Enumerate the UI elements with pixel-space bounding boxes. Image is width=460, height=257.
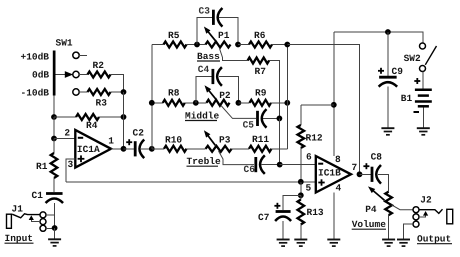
wire C5 to pin6 bus [263, 117, 279, 119]
P3 wiper arrow [207, 135, 215, 146]
polarity + C7 [274, 205, 280, 207]
wire C7 to ground [282, 221, 284, 239]
ground output [397, 239, 410, 241]
wire pin 8 to V+ [333, 32, 335, 156]
svg-text:-10dB: -10dB [21, 88, 50, 99]
resistor R12 [298, 125, 305, 148]
wire IC1A output [111, 148, 124, 150]
svg-text:C3: C3 [199, 6, 211, 17]
wire R12 top lead [300, 105, 302, 125]
wire C8 to P4 [378, 174, 389, 191]
wire R8 to P2 [185, 102, 207, 104]
wire stub +10dB contact [79, 54, 87, 56]
battery B1 [415, 89, 432, 92]
wire SW2 to battery [422, 72, 424, 89]
wire C6 to pin 6 node [262, 164, 280, 166]
svg-text:Treble: Treble [187, 156, 222, 167]
node IC1B output junction [357, 171, 363, 177]
resistor R10 [164, 146, 187, 152]
svg-text:C9: C9 [392, 66, 404, 77]
node R4-feedback junction [121, 114, 127, 120]
svg-text:P4: P4 [365, 204, 377, 215]
op-amp IC1A [75, 130, 111, 168]
node C7 branch junction [298, 192, 304, 198]
wire R5 to P1 [187, 44, 206, 46]
resistor R1 [51, 153, 58, 178]
wire R7 to pin6 bus [269, 61, 279, 119]
potentiometer P3 [206, 146, 232, 152]
svg-text:IC1B: IC1B [318, 167, 341, 178]
node pin2 junction [51, 136, 57, 142]
node C9 junction [385, 29, 391, 35]
P2 wiper arrow [208, 90, 216, 100]
svg-text:8: 8 [335, 154, 341, 165]
wire J1 ring stub [31, 220, 40, 222]
wire R4 left [54, 116, 76, 118]
SW1 contact +10dB [73, 52, 79, 58]
wire treble row left [152, 148, 164, 150]
node R9 feedback junction [284, 100, 290, 106]
potentiometer P1 [206, 42, 231, 48]
wire P3 to R11 [232, 148, 249, 150]
jack J2 tip terminal [413, 207, 419, 213]
wire bass row left [152, 44, 164, 46]
wire C3 left leg [197, 17, 212, 44]
capacitor C4 [211, 69, 214, 84]
svg-text:Middle: Middle [185, 111, 220, 122]
wire R12 to pin5 node [300, 148, 302, 182]
capacitor C9 [379, 76, 397, 79]
ground pin4 [327, 239, 340, 241]
resistor R6 [249, 42, 272, 48]
node R12 V+ junction [331, 102, 337, 108]
node bass feedback junction [284, 42, 290, 48]
wire P4 wiper to J2 [392, 205, 414, 210]
svg-text:R10: R10 [165, 135, 182, 146]
svg-text:R2: R2 [93, 60, 105, 71]
wire SW1 bar to R4 row [53, 96, 55, 118]
svg-text:P2: P2 [219, 90, 231, 101]
op-amp IC1B [316, 156, 351, 193]
switch SW1 common bar [53, 51, 56, 96]
node P2 right junction [236, 100, 242, 106]
wire P2 to R9 [238, 102, 249, 104]
ground input [48, 238, 61, 240]
svg-text:C1: C1 [32, 190, 44, 201]
svg-text:IC1A: IC1A [77, 144, 100, 155]
resistor R7 [248, 58, 270, 64]
wire middle row left [152, 102, 163, 104]
switch SW2 lever [425, 46, 436, 65]
ground B1 [417, 127, 430, 129]
ground C9 [381, 127, 394, 129]
resistor R8 [163, 100, 185, 106]
svg-text:R7: R7 [255, 66, 267, 77]
polarity + C8 [363, 165, 369, 167]
jack J1 tip terminal [40, 212, 46, 218]
jack J1 ring terminal [40, 219, 46, 225]
jack J1 sleeve terminal [40, 225, 46, 231]
node C5 pin6-bus junction [277, 116, 283, 122]
polarity - B1 [414, 111, 420, 113]
wire R13 to ground [300, 225, 302, 240]
resistor R11 [249, 146, 272, 152]
svg-text:4: 4 [336, 183, 342, 194]
capacitor C5 [256, 111, 259, 126]
polarity + B1 [414, 80, 420, 82]
P1 wiper arrow [207, 31, 215, 41]
wire J2 sleeve to ground [404, 224, 414, 239]
node middle row input junction [149, 100, 155, 106]
svg-text:2: 2 [64, 128, 70, 139]
jack J1 switch arrow [29, 215, 34, 220]
svg-text:C6: C6 [244, 164, 256, 175]
svg-text:SW2: SW2 [404, 53, 421, 64]
svg-text:C8: C8 [371, 152, 383, 163]
wire R4 row to IC1A pin 2 [53, 117, 55, 139]
polarity + C9 [378, 70, 384, 72]
wire C1 to jack node [54, 203, 56, 228]
svg-text:7: 7 [352, 162, 358, 173]
resistor R9 [250, 100, 272, 106]
polarity + C2 [126, 141, 132, 143]
resistor R4 [76, 114, 99, 120]
wire R3 to feedback bus [111, 91, 124, 93]
wire R10 to P3 [187, 148, 206, 150]
node tone input lower junction [149, 146, 155, 152]
jack J2 sleeve terminal [413, 221, 419, 227]
node pin6 junction [277, 162, 283, 168]
resistor R5 [164, 42, 187, 48]
potentiometer P2 [207, 100, 230, 106]
potentiometer P4 [385, 192, 392, 216]
wire pin 2 [54, 138, 75, 140]
capacitor C1 [46, 192, 63, 195]
wire C4 left leg [196, 77, 212, 103]
wire J2 ring stub [419, 216, 426, 217]
svg-text:J2: J2 [420, 194, 432, 205]
svg-text:R13: R13 [307, 207, 324, 218]
switch SW2 top contact [420, 43, 426, 49]
ground C7 [277, 239, 290, 241]
resistor R3 [88, 89, 111, 95]
wire C2 to tone network [141, 148, 152, 150]
jack J2 ring terminal [413, 214, 419, 220]
node pin5 bias junction [298, 179, 304, 185]
wire bias rail [66, 181, 316, 183]
capacitor C6 [254, 157, 257, 172]
node IC1A output junction [121, 146, 127, 152]
node SW1/R4 junction [51, 114, 57, 120]
wire to input ground [54, 228, 56, 239]
svg-text:C2: C2 [133, 128, 145, 139]
svg-text:Bass: Bass [197, 51, 220, 62]
resistor R2 [88, 72, 111, 78]
jack J1 tip contact [12, 214, 40, 218]
wire R11 to feedback bus [272, 148, 288, 150]
svg-text:6: 6 [306, 152, 312, 163]
wire R1 to C1 [53, 178, 55, 192]
svg-text:C5: C5 [243, 120, 255, 131]
wire tone input vertical [151, 45, 153, 149]
wire P3 wiper to C6 [219, 151, 255, 165]
SW1 contact 0dB [73, 71, 79, 77]
wire R12 branch [301, 104, 334, 106]
svg-text:SW1: SW1 [56, 38, 73, 49]
P4 wiper arrow [372, 190, 384, 200]
resistor R13 [300, 195, 302, 199]
svg-text:C7: C7 [258, 212, 270, 223]
node R3-feedback junction [121, 89, 127, 95]
svg-text:R8: R8 [168, 88, 180, 99]
wire P4 to ground [388, 215, 390, 239]
node J1 ground junction [52, 225, 58, 231]
wire pin 4 to ground [333, 193, 335, 240]
ground P4 [382, 239, 395, 241]
jack J2 tip contact [419, 209, 443, 213]
svg-text:R11: R11 [252, 134, 269, 145]
node P2 left junction [193, 100, 199, 106]
wire P1 wiper to R7 [220, 49, 248, 61]
capacitor C7 [276, 210, 291, 213]
ground R13 [294, 239, 307, 241]
wire J1 tip to C1 [46, 214, 55, 216]
wire R9 to feedback bus [271, 102, 287, 104]
svg-text:B1: B1 [401, 93, 413, 104]
wire C4 right leg [219, 77, 238, 103]
wire 0dB contact to R2 [79, 74, 87, 76]
svg-text:1: 1 [108, 136, 114, 147]
svg-text:R12: R12 [306, 133, 323, 144]
wire V+ rail [334, 32, 423, 43]
wire pin 3 to bias rail [66, 159, 75, 182]
svg-text:R4: R4 [86, 120, 98, 131]
wire R1 top [53, 139, 55, 154]
node P1 right junction [235, 42, 241, 48]
switch SW2 bottom contact [420, 66, 426, 72]
wire P2 wiper to C5 [221, 106, 256, 119]
wire R6 to feedback node [272, 44, 287, 46]
wire C9 top lead [387, 32, 389, 76]
jack J2 body [447, 209, 453, 224]
wire feedback bus vertical right [286, 45, 288, 149]
svg-text:J1: J1 [12, 204, 24, 215]
wire P1 to R6 [238, 44, 249, 46]
wire pin 6 [280, 164, 316, 166]
svg-text:R6: R6 [254, 30, 266, 41]
svg-text:R1: R1 [36, 161, 48, 172]
svg-text:0dB: 0dB [32, 70, 49, 81]
wire R2 to feedback bus [111, 75, 124, 93]
wire C3 right leg [219, 17, 238, 44]
wire C9 to ground [387, 87, 389, 128]
wire output to C8 [360, 173, 372, 175]
jack J1 body [7, 214, 12, 228]
node P1 left junction [194, 42, 200, 48]
svg-text:R3: R3 [96, 98, 108, 109]
SW1 wiper arrow to 0dB contact [56, 74, 67, 76]
wire feedback top [287, 45, 359, 175]
wire R4 right [99, 116, 124, 118]
wire bias to C7 node [300, 182, 302, 196]
svg-text:5: 5 [306, 183, 312, 194]
svg-text:Input: Input [5, 233, 34, 244]
wire J1 sleeve to ground node [46, 227, 55, 229]
capacitor C8 [371, 167, 374, 182]
wire -10dB contact to R3 [79, 91, 87, 93]
capacitor C2 [134, 141, 137, 156]
SW1 contact -10dB [73, 89, 79, 95]
svg-text:P1: P1 [218, 30, 230, 41]
capacitor C3 [212, 10, 215, 25]
svg-text:R9: R9 [255, 88, 267, 99]
wire pin6 bus lower [278, 118, 280, 164]
svg-text:Volume: Volume [352, 219, 387, 230]
svg-text:R5: R5 [168, 30, 180, 41]
wire output to C2 [124, 148, 135, 150]
svg-text:P3: P3 [219, 135, 231, 146]
wire feedback bus vertical [123, 92, 125, 149]
svg-text:C4: C4 [198, 64, 210, 75]
svg-text:Output: Output [417, 234, 451, 245]
wire C7 branch [283, 195, 301, 210]
wire B1 to ground [422, 108, 424, 128]
jack J2 switch arrow [423, 211, 428, 216]
svg-text:+10dB: +10dB [21, 52, 50, 63]
svg-text:3: 3 [68, 159, 74, 170]
